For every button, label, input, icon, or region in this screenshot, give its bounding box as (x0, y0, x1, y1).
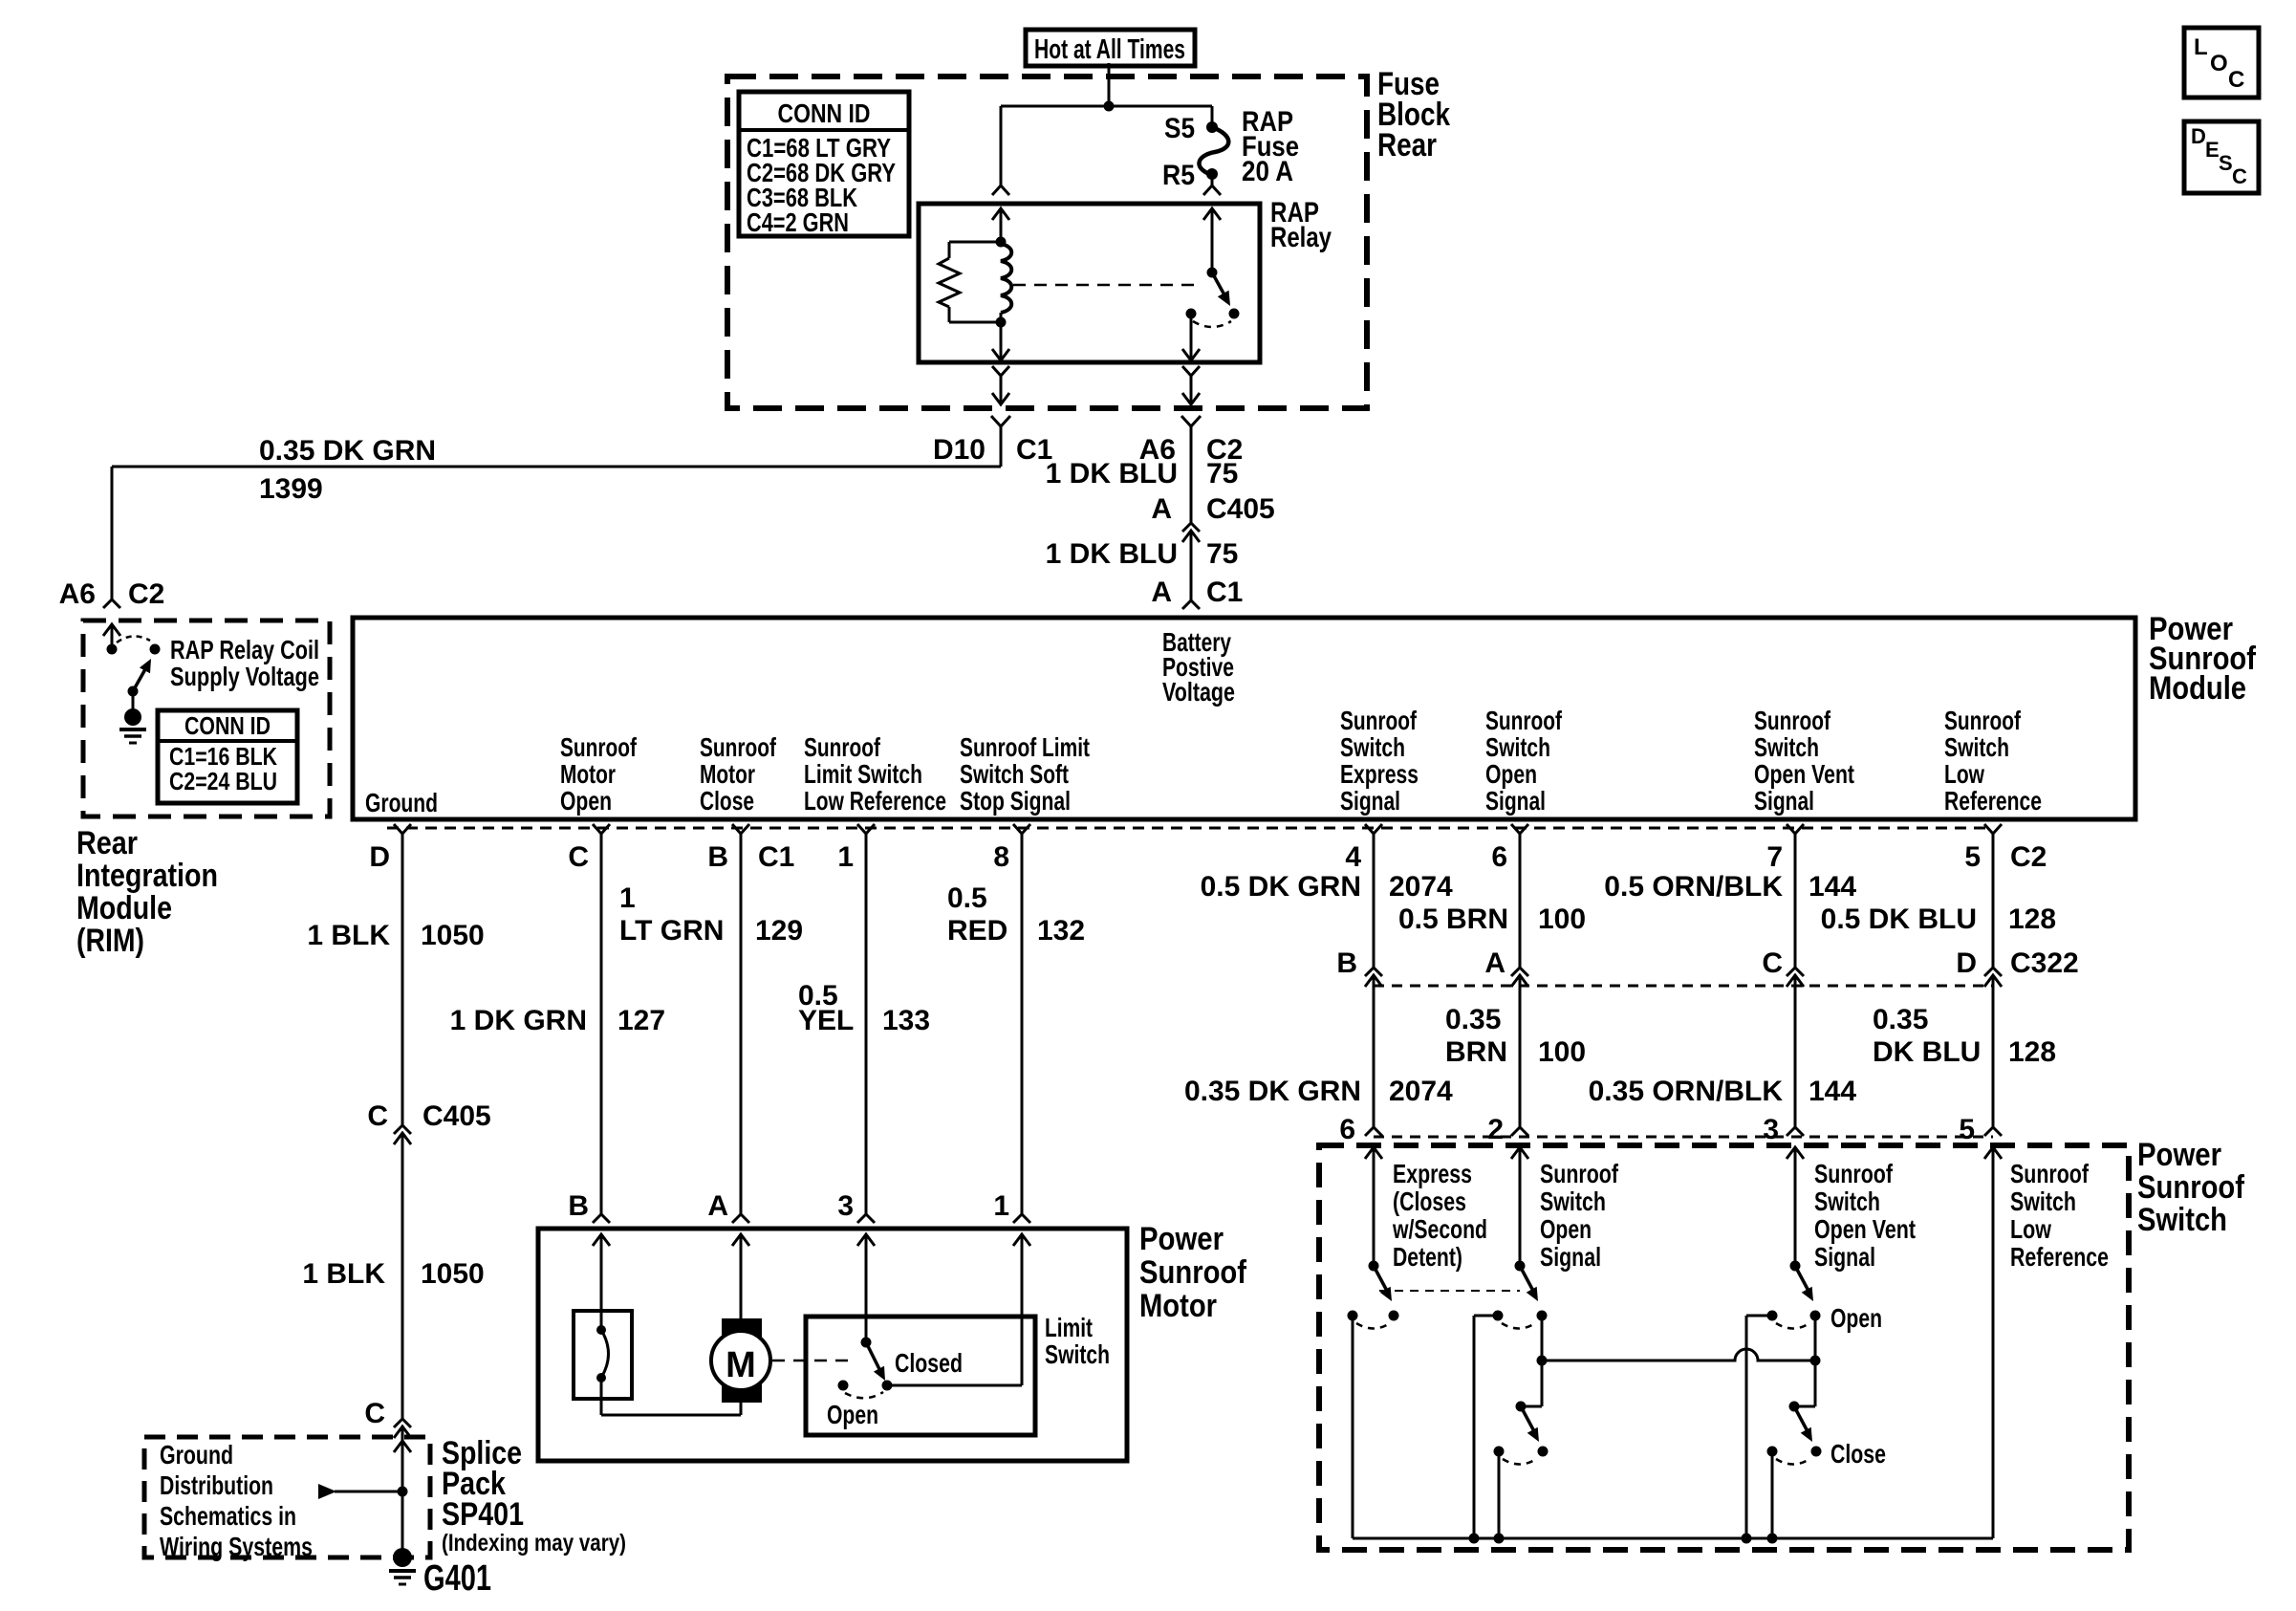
svg-text:1399: 1399 (259, 473, 323, 505)
connector C322 pin C inline (1787, 968, 1804, 976)
connector pin 5 at module bottom (1984, 824, 2002, 834)
svg-text:DK BLU: DK BLU (1873, 1036, 1981, 1068)
svg-text:CONN ID: CONN ID (778, 98, 871, 128)
wire brush switch to motor return (600, 1378, 603, 1415)
svg-text:Express: Express (1393, 1159, 1472, 1188)
wire sunroof motor close 1 LT GRN 129 (740, 834, 743, 1214)
svg-text:C: C (364, 1398, 385, 1429)
node open signal left contact (1493, 1311, 1504, 1321)
svg-text:2074: 2074 (1389, 1076, 1453, 1107)
module box Power Sunroof Switch dashed (1319, 1145, 2129, 1550)
svg-text:O: O (2210, 51, 2228, 76)
svg-text:SP401: SP401 (442, 1496, 524, 1533)
svg-text:Low Reference: Low Reference (804, 786, 946, 816)
svg-text:Signal: Signal (1754, 786, 1814, 816)
svg-text:Express: Express (1340, 759, 1419, 789)
svg-text:Signal: Signal (1814, 1242, 1875, 1272)
svg-text:A6: A6 (59, 578, 96, 610)
svg-text:Sunroof: Sunroof (1485, 706, 1563, 735)
svg-text:0.5: 0.5 (947, 882, 987, 914)
svg-text:Rear: Rear (1377, 127, 1437, 163)
svg-text:Open: Open (1540, 1214, 1592, 1244)
svg-text:132: 132 (1037, 915, 1085, 947)
connector pin B at motor (593, 1214, 610, 1223)
svg-text:C322: C322 (2010, 947, 2079, 979)
dashed throw arc (open vent) (1776, 1323, 1809, 1329)
svg-text:2074: 2074 (1389, 871, 1453, 903)
svg-text:C1: C1 (758, 841, 794, 873)
RAP fuse 20A element (1199, 127, 1228, 175)
svg-text:128: 128 (2008, 1036, 2056, 1068)
wire motor pin entry arrow (732, 1234, 749, 1246)
node junction rail right (1810, 1356, 1821, 1366)
svg-text:RED: RED (947, 915, 1007, 947)
svg-text:Limit: Limit (1045, 1313, 1093, 1342)
svg-text:1: 1 (993, 1190, 1009, 1222)
wire B to brush switch (600, 1234, 603, 1330)
wire A to motor (740, 1234, 743, 1318)
svg-text:0.35: 0.35 (1873, 1004, 1928, 1035)
connector table CONN ID (fuse block) (739, 92, 909, 236)
svg-text:3: 3 (1763, 1114, 1779, 1145)
dashed link motor to limit switch (772, 1360, 856, 1362)
svg-text:Detent): Detent) (1393, 1242, 1462, 1272)
limit switch arm to Closed (866, 1342, 881, 1373)
svg-text:A: A (1484, 947, 1505, 979)
relay box RAP Relay (919, 204, 1260, 362)
svg-text:C4=2 GRN: C4=2 GRN (747, 207, 849, 237)
wire soft stop signal 0.5 RED 132 (1021, 834, 1024, 1214)
dashed mechanical link express to open switch (1379, 1290, 1520, 1292)
switch (motor internal) (574, 1311, 632, 1399)
svg-text:Reference: Reference (2010, 1242, 2109, 1272)
connector exit D10 below relay (992, 366, 1009, 376)
svg-text:1050: 1050 (421, 1258, 485, 1290)
connector pin 8 at module bottom (1013, 824, 1030, 834)
node close right contact Close (1811, 1447, 1822, 1457)
svg-text:Distribution: Distribution (160, 1470, 273, 1500)
wire open signal right contact down (1541, 1316, 1544, 1406)
svg-text:B: B (1336, 947, 1357, 979)
node RIM switch fixed contact (107, 644, 118, 655)
svg-text:YEL: YEL (798, 1005, 854, 1036)
svg-text:A: A (1151, 493, 1172, 525)
svg-text:8: 8 (993, 841, 1009, 873)
svg-text:Sunroof: Sunroof (700, 732, 777, 762)
svg-text:6: 6 (1339, 1114, 1355, 1145)
svg-text:RAP Relay Coil: RAP Relay Coil (170, 635, 319, 664)
svg-text:C405: C405 (422, 1100, 491, 1132)
svg-text:Open Vent: Open Vent (1754, 759, 1854, 789)
wire open signal switch entry (1511, 1147, 1528, 1159)
svg-text:Voltage: Voltage (1162, 677, 1235, 707)
express switch arm (1374, 1266, 1388, 1293)
wire ground D 1 BLK 1050 (401, 834, 404, 1125)
node close left contact (open signal) (1494, 1447, 1505, 1457)
node S5 terminal (1206, 121, 1218, 133)
svg-text:Motor: Motor (1139, 1288, 1217, 1324)
open signal close-pivot jog (1521, 1405, 1542, 1408)
fuse block rear dashed outline (727, 76, 1367, 408)
svg-text:Close: Close (1830, 1439, 1886, 1469)
svg-text:3: 3 (837, 1190, 854, 1222)
node rail junction 1568 (1494, 1534, 1505, 1544)
wire sunroof motor open 1 DK GRN 127 (600, 834, 603, 1214)
junction on feed bus (1104, 101, 1115, 112)
wire 3 to limit switch pivot (865, 1234, 868, 1342)
svg-text:(RIM): (RIM) (76, 923, 144, 959)
svg-text:0.35 ORN/BLK: 0.35 ORN/BLK (1589, 1076, 1784, 1107)
ground G401 symbol (393, 1548, 412, 1567)
connector C2 pin A6 below fuse block (1181, 416, 1201, 426)
ground distribution dashed box (144, 1437, 430, 1557)
coil (relay) winding (1001, 244, 1011, 313)
svg-text:C2: C2 (2010, 841, 2047, 873)
svg-text:C: C (1762, 947, 1783, 979)
connector C405 pin C inline (394, 1125, 411, 1134)
wire open signal left contact to vertical 1542 (1474, 1315, 1498, 1317)
wire relay coil feed with arrow (992, 208, 1009, 220)
dashed throw arc (RIM driver) (117, 636, 150, 642)
wire from R5 to relay (1211, 174, 1214, 185)
connector C1 pin D10 below fuse block (991, 416, 1010, 426)
svg-text:Module: Module (2149, 670, 2246, 707)
svg-text:A: A (707, 1190, 728, 1222)
node close right contact (open signal) (1538, 1447, 1549, 1457)
node express left contact (1348, 1311, 1358, 1321)
svg-text:Signal: Signal (1485, 786, 1546, 816)
svg-text:Switch: Switch (1340, 732, 1405, 762)
svg-text:1050: 1050 (421, 920, 485, 951)
svg-text:CONN ID: CONN ID (184, 711, 271, 740)
svg-text:LT GRN: LT GRN (619, 915, 724, 947)
svg-text:0.5 ORN/BLK: 0.5 ORN/BLK (1604, 871, 1783, 903)
node open vent pivot (1790, 1261, 1801, 1272)
connector pin 1 at motor (1013, 1214, 1030, 1223)
wire express left contact to rail (1352, 1316, 1354, 1538)
svg-text:Signal: Signal (1540, 1242, 1601, 1272)
dashed actuation link coil to contacts (1013, 284, 1202, 287)
node junction rail left (1537, 1356, 1548, 1366)
open vent close-pivot jog (1794, 1405, 1815, 1408)
DESC reference box (2184, 121, 2259, 193)
svg-text:Low: Low (1944, 759, 1984, 789)
node splice SP401 (398, 1487, 408, 1497)
svg-text:Sunroof: Sunroof (1139, 1254, 1247, 1291)
open vent switch arm (1795, 1266, 1809, 1293)
svg-text:Integration: Integration (76, 858, 218, 894)
module box Power Sunroof Module (353, 618, 2135, 819)
connector C1 pin A at module (1182, 600, 1200, 609)
resistor (relay) (949, 241, 1001, 244)
svg-text:C: C (2232, 164, 2247, 188)
module box Power Sunroof Motor (538, 1229, 1127, 1461)
connector exit A6 below relay (1182, 366, 1200, 376)
dashed throw arc (open signal) (1502, 1323, 1535, 1329)
svg-text:G401: G401 (423, 1558, 491, 1599)
wire express switch entry (1365, 1147, 1382, 1159)
wire motor pin entry arrow (1013, 1234, 1030, 1246)
svg-text:0.35 DK GRN: 0.35 DK GRN (1184, 1076, 1361, 1107)
svg-text:5: 5 (1959, 1114, 1975, 1145)
connector C2 pin A6 at RIM (103, 599, 120, 608)
wire sunroof switch low reference 0.5 DK BLU 128 (1992, 834, 1995, 968)
svg-text:Hot at All Times: Hot at All Times (1034, 34, 1185, 65)
svg-text:Sunroof: Sunroof (1944, 706, 2022, 735)
svg-text:Supply Voltage: Supply Voltage (170, 662, 319, 691)
svg-text:(Closes: (Closes (1393, 1186, 1466, 1216)
svg-text:4: 4 (1345, 841, 1361, 873)
svg-text:Open: Open (560, 786, 612, 816)
svg-text:2: 2 (1487, 1114, 1504, 1145)
svg-text:1 BLK: 1 BLK (302, 1258, 385, 1290)
connector C322 pin D inline (1984, 968, 2002, 976)
dashed throw arc (open vent close) (1776, 1459, 1809, 1465)
svg-text:1: 1 (619, 882, 636, 914)
node RIM driver pivot (128, 686, 139, 697)
node open signal right contact (1537, 1311, 1548, 1321)
node limit switch pivot (861, 1338, 872, 1348)
wire motor pin entry arrow (857, 1234, 875, 1246)
svg-text:Open: Open (1485, 759, 1537, 789)
wire RIM input with arrow (103, 624, 120, 636)
svg-text:S5: S5 (1164, 113, 1195, 144)
RIM driver arm with arrow (133, 669, 145, 691)
junction coil bottom (996, 317, 1007, 328)
node rail junction 1827 (1742, 1534, 1752, 1544)
wire sunroof switch open vent signal 0.5 ORN/BLK 144 (1794, 834, 1797, 968)
svg-text:75: 75 (1206, 458, 1238, 490)
svg-text:(Indexing may vary): (Indexing may vary) (442, 1530, 626, 1557)
svg-text:133: 133 (882, 1005, 930, 1036)
wire: bus left drop to relay coil pin (1000, 106, 1003, 185)
svg-text:Signal: Signal (1340, 786, 1400, 816)
svg-text:Close: Close (700, 786, 754, 816)
svg-text:Low: Low (2010, 1214, 2051, 1244)
dashed throw arc (relay) (1193, 321, 1231, 327)
svg-text:Module: Module (76, 890, 172, 926)
svg-text:D: D (2191, 124, 2206, 148)
connector pin D at module bottom (394, 824, 411, 834)
svg-text:Power: Power (2137, 1137, 2221, 1173)
svg-text:A: A (1151, 577, 1172, 608)
connector pin C at module bottom (593, 824, 610, 834)
svg-text:Ground: Ground (365, 788, 438, 817)
svg-text:0.5 DK BLU: 0.5 DK BLU (1821, 903, 1977, 935)
close arm (open vent) (1794, 1406, 1809, 1433)
svg-text:D: D (1956, 947, 1977, 979)
connector C322 dashed line (1374, 985, 1993, 988)
svg-text:Switch: Switch (1944, 732, 2009, 762)
open signal switch arm (1520, 1266, 1534, 1293)
svg-text:C1: C1 (1206, 577, 1243, 608)
svg-text:Switch: Switch (2010, 1186, 2076, 1216)
wire low reference down to rail (1984, 1147, 2002, 1159)
svg-text:0.5 DK GRN: 0.5 DK GRN (1201, 871, 1361, 903)
svg-text:R5: R5 (1162, 160, 1195, 191)
svg-text:Relay: Relay (1270, 222, 1332, 253)
svg-text:Power: Power (1139, 1221, 1224, 1257)
svg-text:C2: C2 (128, 578, 164, 610)
svg-text:Wiring Systems: Wiring Systems (160, 1532, 313, 1561)
svg-text:B: B (707, 841, 728, 873)
connector C405 pin A inline (1182, 523, 1200, 532)
motor M armature (722, 1318, 762, 1340)
svg-text:L: L (2194, 34, 2208, 60)
svg-text:C: C (367, 1100, 388, 1132)
svg-text:Open Vent: Open Vent (1814, 1214, 1916, 1244)
svg-text:Sunroof: Sunroof (2137, 1169, 2245, 1206)
LOC reference box (2184, 28, 2259, 98)
wire open vent switch entry (1787, 1147, 1804, 1159)
svg-text:1 BLK: 1 BLK (307, 920, 390, 951)
node close pivot (open signal) (1516, 1402, 1527, 1412)
svg-text:Open: Open (827, 1400, 878, 1429)
svg-text:Reference: Reference (1944, 786, 2042, 816)
close arm (open signal) (1521, 1406, 1535, 1433)
wire motor pin entry arrow (593, 1234, 610, 1246)
node rail junction 1542 (1469, 1534, 1480, 1544)
connector pin 1 at module bottom (857, 824, 875, 834)
svg-text:Switch: Switch (1485, 732, 1550, 762)
svg-text:Limit Switch: Limit Switch (804, 759, 922, 789)
svg-text:5: 5 (1964, 841, 1981, 873)
svg-text:Sunroof: Sunroof (560, 732, 638, 762)
node RIM switch open contact (150, 644, 161, 655)
svg-text:Ground: Ground (160, 1440, 233, 1469)
node rail junction 1854 (1767, 1534, 1778, 1544)
svg-text:6: 6 (1491, 841, 1507, 873)
wire relay common from R5 with arrow (1203, 208, 1221, 220)
wire open vent left contact to vertical 1827 (1746, 1315, 1772, 1317)
module bottom connector dashed line (387, 827, 1993, 830)
svg-text:C: C (568, 841, 589, 873)
switch connector dashed line (1374, 1136, 1993, 1139)
dashed throw arc (limit switch) (845, 1392, 883, 1398)
dashed throw arc (express) (1356, 1323, 1390, 1329)
node express pivot (1369, 1261, 1379, 1272)
junction coil top (996, 237, 1007, 248)
wire common rail (1353, 1537, 1993, 1540)
ground G (RIM internal) (124, 708, 141, 726)
svg-text:129: 129 (755, 915, 803, 947)
dashed throw arc (open signal close) (1503, 1459, 1536, 1465)
connector pin A at motor (732, 1214, 749, 1223)
svg-text:144: 144 (1809, 871, 1856, 903)
module box Rear Integration Module dashed (83, 620, 330, 816)
svg-text:D10: D10 (933, 434, 986, 466)
svg-text:1: 1 (837, 841, 854, 873)
svg-text:D: D (369, 841, 390, 873)
wire from Hot at All Times down to bus (1108, 63, 1111, 106)
svg-text:M: M (726, 1345, 756, 1385)
svg-text:w/Second: w/Second (1392, 1214, 1487, 1244)
connector pin 4 at module bottom (1365, 824, 1382, 834)
limit switch box (806, 1317, 1035, 1435)
svg-text:Sunroof: Sunroof (1540, 1159, 1619, 1188)
svg-text:144: 144 (1809, 1076, 1856, 1107)
svg-text:0.35: 0.35 (1445, 1004, 1501, 1035)
svg-text:1 DK BLU: 1 DK BLU (1046, 458, 1178, 490)
wire limit switch low ref 0.5 YEL 133 (865, 834, 868, 1214)
node open vent right contact Open (1810, 1311, 1821, 1321)
node: Hot at All Times feed box (1026, 30, 1195, 66)
wire close left contact to rail (1498, 1451, 1501, 1538)
wire 0.35 DK GRN 1399 to RIM (1000, 426, 1003, 467)
connector C322 pin A inline (1511, 968, 1528, 976)
svg-text:Sunroof: Sunroof (1340, 706, 1418, 735)
svg-text:Switch: Switch (1754, 732, 1819, 762)
wire splice pack entry arrow (394, 1441, 411, 1452)
svg-text:C2=24 BLU: C2=24 BLU (169, 767, 277, 795)
connector pin 3 at motor (857, 1214, 875, 1223)
wire NO contact to relay pin A6 with arrow (1190, 314, 1193, 360)
svg-text:BRN: BRN (1445, 1036, 1507, 1068)
wire pivot to ground (132, 691, 135, 711)
node open vent left contact (1767, 1311, 1778, 1321)
svg-text:Switch: Switch (1045, 1339, 1110, 1369)
node close left contact (open vent) (1767, 1447, 1778, 1457)
node express right contact (1389, 1311, 1399, 1321)
node relay switch pivot (1207, 268, 1218, 278)
svg-text:1 DK BLU: 1 DK BLU (1046, 538, 1178, 570)
node limit switch Open contact (838, 1381, 849, 1391)
node close pivot (open vent) (1789, 1402, 1800, 1412)
wire cross rail with hop (1542, 1349, 1815, 1361)
connector pin 6 at module bottom (1511, 824, 1528, 834)
svg-text:Switch: Switch (1814, 1186, 1880, 1216)
wire open vent right contact down (1814, 1316, 1817, 1406)
svg-text:Switch: Switch (1540, 1186, 1606, 1216)
svg-text:100: 100 (1538, 903, 1586, 935)
svg-text:Motor: Motor (560, 759, 616, 789)
wire to ground G401 (401, 1491, 404, 1554)
wire: bus right drop to fuse S5 (1211, 106, 1214, 127)
connector C322 pin B inline (1365, 968, 1382, 976)
svg-text:Stop Signal: Stop Signal (960, 786, 1071, 816)
svg-text:1 DK GRN: 1 DK GRN (450, 1005, 587, 1036)
svg-text:Sunroof: Sunroof (804, 732, 881, 762)
svg-text:Sunroof: Sunroof (1754, 706, 1831, 735)
svg-text:Schematics in: Schematics in (160, 1501, 296, 1531)
svg-text:20 A: 20 A (1242, 156, 1293, 187)
connector C splice pack inline (394, 1419, 411, 1427)
wire close left contact to rail (open vent) (1771, 1451, 1774, 1538)
svg-text:Sunroof: Sunroof (1814, 1159, 1894, 1188)
node relay NO contact (1186, 309, 1197, 319)
wire Closed contact to pin 1 (887, 1384, 1022, 1387)
relay switch arm (1212, 272, 1227, 300)
off-page arrow to ground distribution (318, 1484, 336, 1499)
svg-text:Closed: Closed (895, 1348, 963, 1378)
wire 1 DK BLU 75 battery feed (1190, 426, 1193, 523)
svg-text:C: C (2228, 67, 2244, 93)
connector pin B at module bottom (732, 824, 749, 834)
svg-text:0.35 DK GRN: 0.35 DK GRN (259, 435, 436, 467)
wire sunroof switch open signal 0.5 BRN 100 (1519, 834, 1522, 968)
wire coil to relay pin D10 with arrow (1000, 322, 1003, 360)
connector pin 7 at module bottom (1787, 824, 1804, 834)
svg-text:127: 127 (617, 1005, 665, 1036)
connector table CONN ID (RIM) (158, 710, 297, 803)
svg-text:S: S (2219, 151, 2233, 175)
svg-text:Sunroof Limit: Sunroof Limit (960, 732, 1090, 762)
svg-text:100: 100 (1538, 1036, 1586, 1068)
svg-text:Open: Open (1830, 1303, 1882, 1333)
svg-text:Switch Soft: Switch Soft (960, 759, 1069, 789)
node R5 terminal (1206, 168, 1218, 180)
svg-text:Sunroof: Sunroof (2010, 1159, 2090, 1188)
